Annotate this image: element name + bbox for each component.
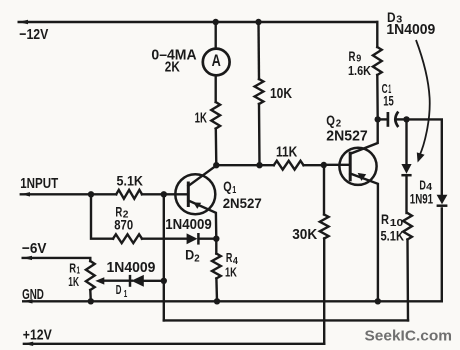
svg-text:A: A	[212, 52, 221, 70]
svg-text:−6V: −6V	[22, 240, 47, 257]
wire curved pointer arrow from D3 label to D3	[416, 40, 430, 163]
svg-text:2N527: 2N527	[223, 195, 262, 211]
label R4	[226, 250, 238, 267]
wire node A to 10K node	[216, 164, 259, 166]
wire 5.1K to Q1 base	[142, 193, 188, 195]
svg-text:10: 10	[390, 217, 404, 229]
node junction dot R4/GND	[214, 298, 220, 304]
resistor 5.1K	[116, 190, 142, 199]
resistor R9 top lead	[376, 22, 378, 47]
potentiometer R1 1K	[86, 261, 95, 290]
diode D1 1N4009	[130, 275, 164, 287]
wire ammeter to 1K	[214, 76, 216, 102]
resistor 10K	[255, 79, 264, 104]
svg-text:30K: 30K	[292, 226, 317, 243]
svg-text:SeekIC.com: SeekIC.com	[365, 327, 453, 344]
node junction dot Q2 base/30K	[321, 162, 327, 168]
resistor 1K meter series	[211, 102, 220, 129]
svg-text:2K: 2K	[165, 58, 180, 75]
capacitor C1 15	[378, 112, 407, 127]
resistor R2 870	[113, 234, 142, 243]
wire -6V rail	[23, 258, 91, 261]
resistor 30K	[320, 215, 329, 239]
svg-text:R: R	[349, 48, 356, 64]
label D1	[116, 282, 128, 300]
label R1	[69, 261, 80, 277]
label D3	[387, 10, 402, 26]
wire to 11K	[260, 164, 274, 166]
wire input vertical down to feedback line	[163, 194, 165, 320]
node junction dot INPUT/R2	[88, 191, 94, 197]
svg-text:Q: Q	[326, 113, 335, 128]
wire INPUT rail	[21, 193, 116, 195]
node junction dot 10K bottom	[256, 162, 262, 168]
node junction dot input vertical top	[161, 191, 167, 197]
node junction dot Q2 emitter/GND	[375, 298, 381, 304]
resistor 11K	[274, 161, 304, 170]
wire ammeter branch	[214, 22, 216, 49]
svg-text:2: 2	[336, 117, 342, 129]
wire 10K top lead	[257, 22, 260, 79]
wire 1K to node A	[215, 129, 218, 166]
svg-text:9: 9	[356, 53, 361, 65]
wire -6V rail start blob	[22, 256, 32, 260]
svg-text:1K: 1K	[68, 275, 79, 289]
svg-text:1NPUT: 1NPUT	[20, 175, 58, 192]
wiper arrow of R1	[95, 277, 132, 284]
svg-text:1K: 1K	[195, 110, 207, 127]
transistor Q2 2N527	[339, 119, 378, 301]
node junction dot R9/Q2 collector/C1	[375, 116, 381, 122]
svg-text:1.6K: 1.6K	[348, 64, 371, 78]
node junction dot A	[213, 162, 219, 168]
svg-text:−12V: −12V	[19, 26, 48, 43]
resistor R4 1K	[215, 239, 217, 254]
wire 11K to Q2 base node	[304, 164, 324, 166]
svg-text:5.1K: 5.1K	[117, 174, 144, 189]
wire GND rail start blob	[23, 299, 33, 303]
meter A 0-4MA	[203, 49, 230, 76]
diode D4 1N91	[437, 195, 448, 302]
wire R10 bottom to feedback line	[406, 240, 409, 321]
svg-text:R: R	[69, 261, 76, 276]
svg-text:2N527: 2N527	[326, 129, 367, 145]
svg-text:15: 15	[383, 93, 394, 109]
node junction dot Q1 emitter/D2/R4	[213, 236, 219, 242]
svg-text:1N4009: 1N4009	[386, 21, 435, 38]
svg-text:1N4009: 1N4009	[107, 259, 156, 276]
resistor R10 5.1K	[403, 213, 412, 240]
label R10	[381, 211, 403, 229]
wire GND rail	[23, 300, 442, 302]
transistor Q1 2N527	[175, 166, 216, 239]
label R2	[115, 204, 128, 221]
svg-text:D: D	[116, 282, 122, 297]
svg-text:R: R	[381, 211, 389, 227]
svg-text:1N4009: 1N4009	[165, 216, 211, 233]
label Q2	[326, 113, 341, 129]
wire 10K bottom lead	[258, 104, 261, 165]
svg-text:10K: 10K	[270, 85, 292, 102]
label R9	[349, 48, 362, 65]
node junction dot rail/10K	[255, 19, 261, 25]
wire +12V rail	[24, 343, 324, 345]
svg-text:5.1K: 5.1K	[381, 229, 405, 244]
wire R9 to C1 node	[376, 75, 379, 119]
svg-text:1N91: 1N91	[410, 191, 433, 207]
svg-text:1: 1	[124, 289, 128, 300]
wire 30K to +12V rail	[323, 239, 325, 344]
label C1	[382, 81, 392, 96]
wire INPUT rail start blob	[20, 192, 30, 196]
label D4	[419, 177, 432, 193]
wire C1 node to right rail	[407, 119, 442, 195]
node junction dot R1/GND	[88, 298, 94, 304]
svg-text:11K: 11K	[276, 143, 297, 160]
wire -12V rail start blob	[18, 20, 28, 24]
svg-text:1K: 1K	[225, 265, 237, 279]
wire Q2 base node down to 30K	[323, 165, 325, 215]
svg-text:Q: Q	[223, 179, 231, 194]
svg-text:+12V: +12V	[23, 327, 52, 344]
diode D2 1N4009	[187, 233, 217, 245]
wire Q2 base lead	[324, 164, 350, 166]
resistor R9	[373, 47, 382, 75]
svg-text:R: R	[226, 250, 233, 265]
node junction dot rail/ammeter	[213, 19, 219, 25]
label D2	[185, 247, 200, 264]
label Q1	[223, 179, 236, 196]
wire R2 drop from INPUT	[91, 194, 113, 238]
svg-text:870: 870	[114, 218, 133, 233]
svg-text:D: D	[185, 247, 194, 262]
wire -12V supply rail	[19, 21, 378, 23]
wire feedback line to input vertical	[164, 319, 408, 321]
wire R2 to D2	[142, 237, 187, 239]
diode D3 1N4009	[401, 119, 411, 213]
node junction dot C1 right	[403, 116, 409, 122]
node junction dot D1/input vertical	[161, 278, 167, 284]
wire +12V rail start blob	[23, 342, 33, 346]
svg-text:2: 2	[194, 253, 200, 265]
